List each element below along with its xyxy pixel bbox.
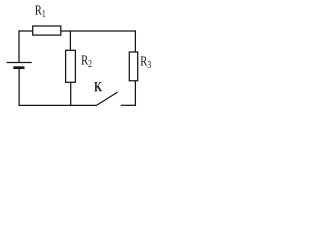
svg-text:R3: R3 bbox=[140, 53, 151, 70]
wire left side upper (top-left corner down to battery) bbox=[18, 30, 20, 62]
switch K: open blade bbox=[96, 92, 118, 106]
resistor R2 bbox=[66, 50, 76, 82]
wire right side lower (R3 down to bottom-right corner) bbox=[134, 80, 136, 106]
wire top segment left (battery+ to R1) bbox=[18, 30, 33, 32]
wire right side upper (top-right corner down to R3) bbox=[134, 30, 136, 52]
wire R2 branch lower stub bbox=[70, 82, 72, 106]
svg-text:R2: R2 bbox=[81, 52, 92, 69]
wire left side lower (battery down to bottom-left corner) bbox=[18, 68, 20, 106]
wire R2 branch upper stub bbox=[69, 30, 71, 50]
battery cell: short thick negative plate bbox=[13, 66, 24, 69]
resistor R1 bbox=[33, 26, 61, 35]
resistor R3 bbox=[129, 52, 137, 81]
wire top segment right (R1 to top-right corner) bbox=[61, 30, 136, 32]
svg-text:K: K bbox=[94, 79, 102, 95]
wire bottom segment right (switch contact to bottom-right corner) bbox=[121, 104, 136, 106]
svg-text:R1: R1 bbox=[35, 2, 46, 19]
wire bottom segment left (bottom-left corner to switch pivot) bbox=[18, 104, 96, 106]
battery cell: long positive plate bbox=[7, 62, 32, 64]
